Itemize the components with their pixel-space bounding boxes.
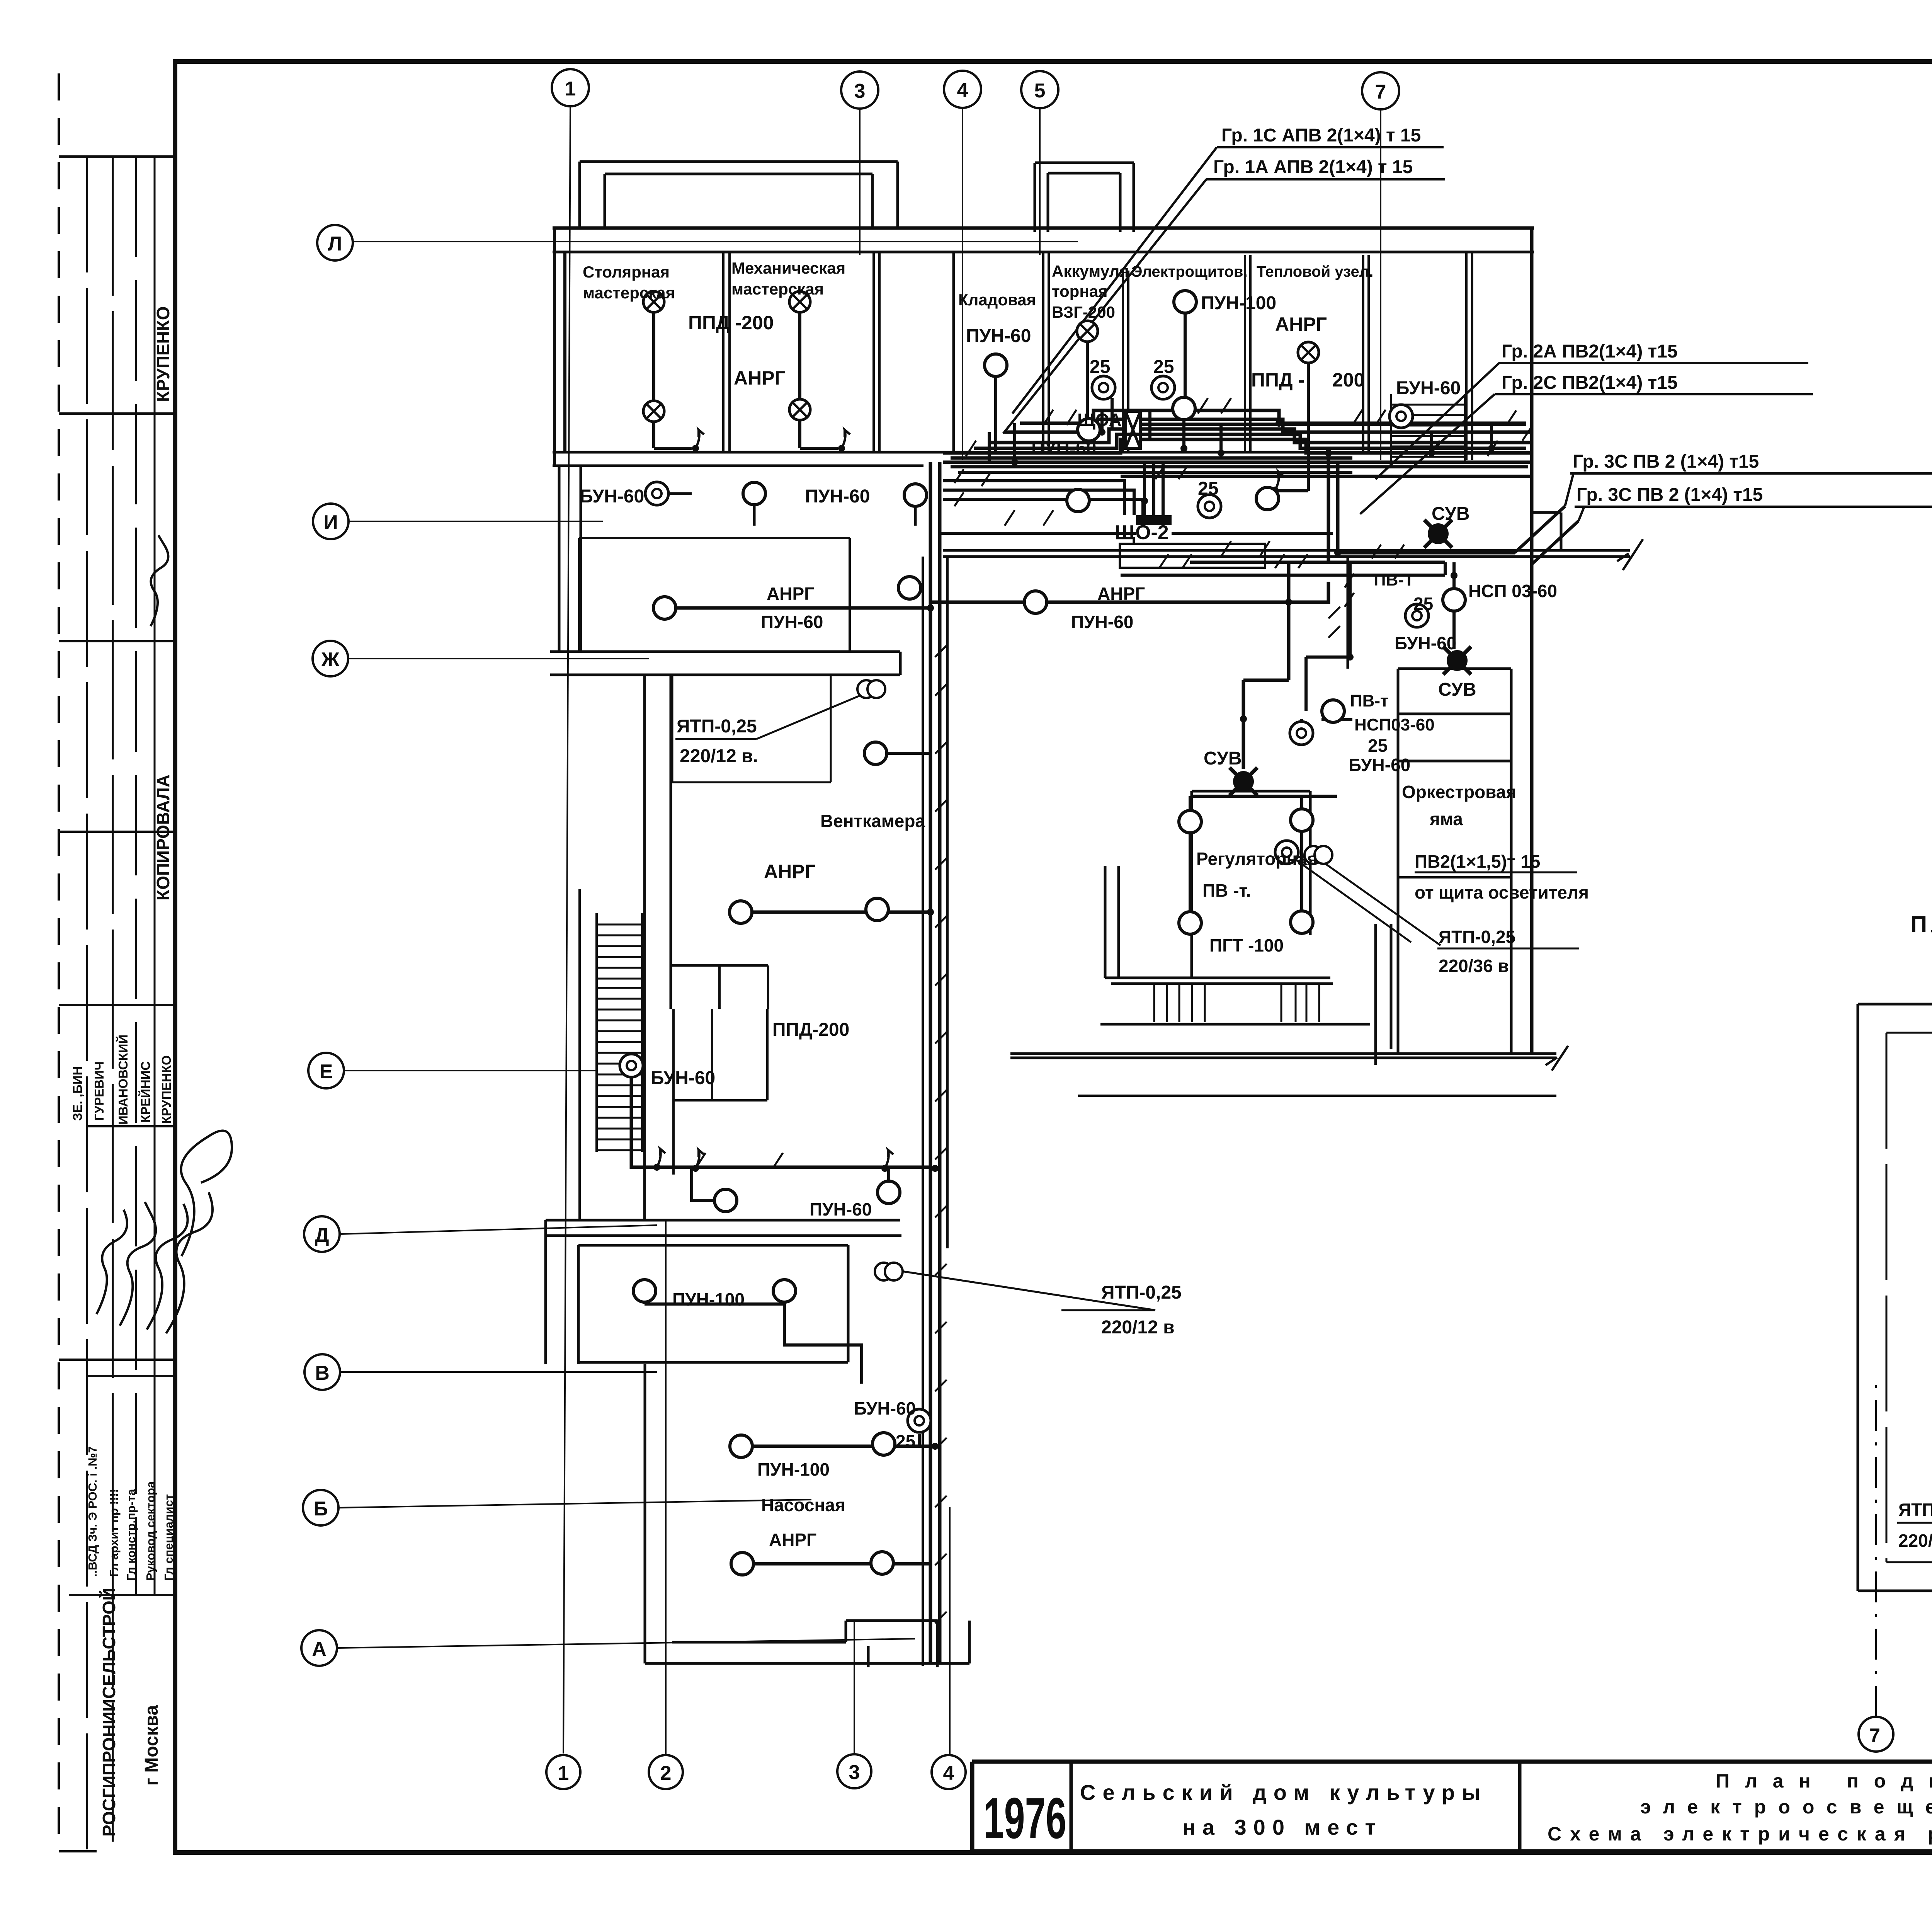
room divider akkum/elektro [1123, 271, 1128, 452]
suv center symbol [1230, 768, 1257, 795]
svg-text:200: 200 [1332, 369, 1364, 391]
lower slab edge [1078, 1095, 1556, 1097]
axis Zh leader [348, 658, 649, 659]
svg-text:ПУН-60: ПУН-60 [1031, 438, 1096, 458]
room divider mech right [874, 252, 879, 452]
stair bun60 double circle [1389, 405, 1413, 428]
stamp column vertical 1 [86, 157, 88, 1851]
drop to ShchO-2 [1145, 462, 1163, 515]
axis V circle [304, 1354, 340, 1390]
mid separation wall elektro area [899, 652, 902, 675]
axis D circle [304, 1216, 340, 1252]
stamp signatures cluster [97, 1130, 232, 1333]
nsp pendant right [1443, 589, 1465, 611]
switch bun60 left mid [653, 1149, 665, 1171]
svg-text:1: 1 [565, 78, 576, 100]
svg-text:Сельский дом культуры: Сельский дом культуры [1080, 1780, 1487, 1805]
svg-text:..ВСД Зч. Э РОС. і .№7: ..ВСД Зч. Э РОС. і .№7 [86, 1446, 99, 1577]
svg-text:ПВ-Т: ПВ-Т [1374, 570, 1414, 589]
pendant kladovaya [985, 354, 1007, 376]
kladovaya stem [994, 376, 997, 452]
regulyatornaya outer wall left [1105, 866, 1333, 984]
svg-text:НСП03-60: НСП03-60 [1354, 715, 1435, 734]
axis 4 top circle [944, 71, 981, 108]
corridor bun60 double circle [645, 482, 668, 505]
wire down center to suv2 [1243, 562, 1289, 769]
svg-text:2: 2 [660, 1762, 672, 1784]
lamp akkum VZG [1077, 321, 1098, 342]
switch mech [838, 430, 850, 452]
top room stems stolyarnaya [654, 312, 692, 448]
svg-text:Оркестровая: Оркестровая [1402, 782, 1516, 802]
yatp underline low [1061, 1309, 1155, 1311]
stamp column vertical 4 [154, 157, 156, 1596]
stair mid-left rails [580, 889, 642, 1221]
svg-text:ГУРЕВИЧ: ГУРЕВИЧ [92, 1061, 106, 1121]
double circle 25 right [1151, 376, 1175, 399]
left outer wall mid [643, 675, 646, 1221]
axis 4 bottom circle [932, 1755, 966, 1789]
gr1 callout diagonals [1003, 147, 1217, 434]
bun60 mid-left double circle [620, 1054, 643, 1077]
svg-text:Гр. 2С ПВ2(1×4) т15: Гр. 2С ПВ2(1×4) т15 [1502, 373, 1678, 393]
switch lower corridor [692, 1150, 704, 1172]
svg-text:220/12 в: 220/12 в [1101, 1317, 1175, 1338]
anrg room wire [741, 911, 930, 914]
dc + transformer for 220/36 [1275, 841, 1298, 864]
svg-text:торная: торная [1052, 282, 1108, 300]
left outer wall top block [554, 228, 565, 466]
svg-text:Гр. 2А ПВ2(1×4) т15: Гр. 2А ПВ2(1×4) т15 [1502, 341, 1678, 362]
axis V leader [340, 1371, 657, 1373]
room divider kladovaya right [1043, 252, 1049, 452]
axis 1 line [563, 106, 570, 1754]
svg-text:Гр. 3С ПВ 2 (1×4) т15: Гр. 3С ПВ 2 (1×4) т15 [1577, 485, 1763, 505]
svg-text:ПУН-60: ПУН-60 [805, 486, 870, 507]
svg-text:220/36 в.: 220/36 в. [1898, 1531, 1932, 1551]
suv wall symbol a [1424, 520, 1452, 548]
yatp 220/36 underline [1437, 948, 1579, 950]
YaTP dashed box [672, 675, 831, 782]
svg-text:АНРГ: АНРГ [769, 1530, 816, 1550]
svg-text:ППД -: ППД - [1251, 369, 1304, 391]
lower corridor double wall left [550, 652, 900, 675]
room divider stolyarnaya/mech [723, 252, 730, 452]
corridor lamp stubs [657, 494, 915, 526]
svg-text:1: 1 [558, 1762, 569, 1784]
svg-text:Руковод сектора: Руковод сектора [144, 1481, 157, 1581]
svg-text:4: 4 [943, 1762, 954, 1784]
wall right of teplo stair shaft [1466, 252, 1472, 460]
axis I circle [313, 504, 349, 539]
axis B leader [338, 1500, 811, 1508]
svg-text:БУН-60: БУН-60 [1396, 378, 1461, 398]
svg-text:КОПИРОВАЛА: КОПИРОВАЛА [153, 775, 173, 901]
ventkamera left wall [670, 675, 672, 1009]
ShchO-2 black bar [1136, 515, 1172, 525]
gallery left room inner [1886, 1033, 1932, 1562]
pendant akkum lower [1078, 419, 1100, 441]
lamp mech top [789, 291, 810, 312]
gallery left room outer [1858, 1004, 1932, 1591]
svg-text:3: 3 [854, 80, 866, 102]
tick marks bundle [696, 398, 1498, 1623]
pendant elektro top [1174, 291, 1196, 313]
top bundle line 1 [1005, 419, 1530, 432]
top inner wall [553, 251, 1534, 254]
svg-text:Ж: Ж [321, 649, 340, 671]
svg-text:РОСГИПРОНИИСЕЛЬСТРОЙ: РОСГИПРОНИИСЕЛЬСТРОЙ [99, 1588, 119, 1837]
extra bundle lines 2 [951, 467, 1530, 476]
svg-text:Гл архит пр !!!!: Гл архит пр !!!! [107, 1489, 121, 1577]
room divider teplo right [1363, 255, 1369, 452]
bundle risers to ShchOA [1102, 398, 1150, 439]
svg-text:АНРГ: АНРГ [767, 584, 814, 604]
svg-text:5: 5 [1034, 80, 1046, 102]
title block outer [972, 1762, 1932, 1851]
yatp transformer top [857, 680, 885, 698]
lamp teplo ANRG [1298, 342, 1319, 363]
axis A leader [337, 1639, 915, 1648]
svg-text:Схема электрическая расположен: Схема электрическая расположения [1548, 1823, 1932, 1845]
axis 1 bottom circle [546, 1755, 580, 1789]
svg-text:ПУН-100: ПУН-100 [672, 1289, 745, 1309]
svg-text:25: 25 [1090, 357, 1110, 377]
stamp column outer dash line [58, 73, 60, 1851]
gallery axis 7 [1859, 1717, 1893, 1752]
switch stolyarnaya [692, 430, 704, 452]
pendant elektro bottom [1173, 397, 1195, 420]
bun double circle center [1290, 722, 1313, 745]
pun100 pendants [633, 1280, 656, 1302]
svg-text:г Москва: г Москва [141, 1705, 162, 1786]
ventkamera right wall pair [923, 557, 947, 1666]
svg-text:СУВ: СУВ [1438, 679, 1476, 700]
svg-text:ПВ-т: ПВ-т [1350, 691, 1389, 710]
nasos pendants row1 [730, 1435, 752, 1457]
bun60 drop lower [918, 1434, 921, 1446]
axis 5 top circle [1021, 71, 1058, 108]
pun60 lower pendants [714, 1189, 737, 1212]
svg-text:Д: Д [315, 1224, 329, 1246]
svg-text:Столярная: Столярная [583, 263, 670, 281]
top bundle line 4 [943, 461, 1530, 464]
ShchO-2 box [1120, 544, 1265, 568]
svg-text:220/36 в.: 220/36 в. [1439, 956, 1514, 976]
svg-text:ПВ2(1×1,5)т 15: ПВ2(1×1,5)т 15 [1415, 851, 1540, 872]
corridor anrg wire left [676, 606, 930, 610]
svg-text:АНРГ: АНРГ [764, 861, 816, 882]
svg-text:ПУН-100: ПУН-100 [757, 1459, 830, 1479]
svg-text:И: И [323, 511, 338, 534]
axis E circle [308, 1053, 344, 1088]
yatp callout leader low [904, 1272, 1155, 1310]
wires into regulyatornaya [1190, 796, 1302, 912]
title block verticals [1071, 1762, 1932, 1851]
pendant near teplo wall [1256, 487, 1279, 510]
corridor pendant anrg right [1024, 591, 1047, 613]
svg-text:Тепловой узел.: Тепловой узел. [1257, 263, 1373, 280]
top-right landing [1532, 512, 1561, 550]
axis 3 bottom circle [837, 1754, 871, 1788]
gr2 callout diagonals [1360, 363, 1499, 514]
svg-text:ЗЕ. ,БИН: ЗЕ. ,БИН [70, 1066, 85, 1121]
axis Zh circle [313, 641, 348, 676]
svg-text:электроосвещение.: электроосвещение. [1640, 1796, 1932, 1818]
svg-text:ПУН-60: ПУН-60 [1071, 612, 1133, 632]
top shaft box right [1035, 163, 1134, 232]
svg-text:ВЗГ-200: ВЗГ-200 [1052, 303, 1115, 321]
lamp mech bottom [789, 399, 810, 420]
svg-text:БУН-60: БУН-60 [854, 1398, 916, 1418]
axis 3 top circle [841, 72, 878, 109]
axis L leader [353, 241, 1078, 242]
corridor double circle 25 [1198, 495, 1221, 518]
nasos wires [741, 1446, 930, 1564]
svg-text:на 300 мест: на 300 мест [1182, 1815, 1383, 1839]
slab break mark [1546, 1046, 1568, 1071]
bun60 lower double circle [908, 1409, 931, 1432]
corridor pendant anrg left [653, 597, 676, 619]
upper-left wall below corridor [559, 466, 581, 652]
suv row horizontal wires [1190, 553, 1515, 562]
corridor wall x3490 [1347, 557, 1349, 669]
svg-text:ЩО-2: ЩО-2 [1115, 521, 1169, 544]
svg-text:7: 7 [1869, 1725, 1880, 1746]
diag leaders to yatp 220/36 [1291, 856, 1440, 945]
axis B circle [303, 1490, 338, 1525]
orchestra mid walls [1398, 876, 1511, 878]
room divider elektro/teplo [1245, 255, 1250, 452]
svg-text:яма: яма [1429, 809, 1463, 829]
svg-text:Электрощитов.: Электрощитов. [1131, 263, 1248, 280]
svg-text:СУВ: СУВ [1432, 504, 1470, 524]
top shaft box left [580, 162, 898, 228]
svg-text:КРЕЙНИС: КРЕЙНИС [138, 1061, 153, 1123]
gr1 underlines [1206, 147, 1445, 179]
svg-text:ПГТ -100: ПГТ -100 [1209, 935, 1284, 955]
svg-text:25: 25 [1198, 478, 1218, 499]
svg-text:ЩОА: ЩОА [1077, 410, 1122, 430]
svg-text:25: 25 [1368, 735, 1388, 756]
extra wire ticks [954, 410, 1532, 607]
room divider kladovaya left [952, 252, 955, 452]
svg-text:1976: 1976 [983, 1786, 1066, 1851]
nasos block left wall [644, 1364, 646, 1663]
double circle 25 left of ShchOA [1092, 376, 1115, 399]
stair mid-left hatch [597, 924, 642, 1150]
stair top-right hatch [1391, 394, 1465, 461]
svg-text:АНРГ: АНРГ [1097, 584, 1145, 604]
pun100 room wires [645, 1279, 862, 1384]
stamp column vertical 3 [135, 157, 137, 1596]
nsp pendant center [1322, 700, 1344, 722]
axis 2 bottom circle [649, 1755, 683, 1789]
lamp stolyarnaya top [643, 291, 664, 312]
svg-text:ЯТП-0,25: ЯТП-0,25 [677, 716, 757, 737]
svg-text:ПУН-100: ПУН-100 [1201, 293, 1276, 313]
corridor pendant 1 [743, 482, 765, 505]
svg-text:Аккумуля: Аккумуля [1052, 262, 1129, 280]
ventkamera bottom small rooms [671, 965, 768, 1009]
yatp transformer lower [875, 1263, 903, 1280]
svg-text:План осветительной галереи: План осветительной галереи [1910, 911, 1932, 937]
risers top rooms bundle [1184, 410, 1492, 453]
nasos bottom walls [645, 1621, 969, 1667]
extra riser kladovaya [989, 423, 1015, 462]
svg-text:ИВАНОВСКИЙ: ИВАНОВСКИЙ [116, 1035, 130, 1125]
svg-text:План подвала: План подвала [1716, 1770, 1932, 1792]
axis 1 top circle [552, 69, 589, 106]
corridor double wire suv row [1121, 562, 1445, 575]
svg-text:Механическая: Механическая [731, 259, 845, 277]
svg-text:ПВ -т.: ПВ -т. [1202, 880, 1251, 901]
balusters below regulyatornaya [1154, 984, 1319, 1022]
svg-text:Б: Б [313, 1498, 328, 1520]
svg-text:мастерская: мастерская [731, 280, 824, 298]
wires exit right top [1515, 506, 1578, 564]
extra bundle lines 3 [951, 424, 1526, 458]
wire along corridor y1380 [940, 532, 1333, 535]
svg-text:Гр. 3С ПВ 2 (1×4) т15: Гр. 3С ПВ 2 (1×4) т15 [1573, 451, 1759, 472]
axis 3 line top [859, 109, 861, 255]
svg-text:БУН-60: БУН-60 [1395, 633, 1456, 653]
axis 4 line top [962, 108, 963, 460]
landing line below balusters [1100, 1023, 1370, 1026]
lamp stolyarnaya bottom [643, 401, 664, 422]
bottom slab lines [1010, 1054, 1556, 1058]
top room stems mech [800, 312, 838, 448]
extra bundle lines [974, 410, 1526, 448]
right outer wall top [1530, 228, 1534, 1054]
axis D leader [340, 1225, 657, 1234]
upper-left inner room rect [579, 538, 850, 653]
svg-text:4: 4 [957, 79, 968, 102]
pv2 underline orchestral [1415, 872, 1577, 873]
wall end break mark [1617, 539, 1643, 570]
svg-text:В: В [315, 1362, 330, 1384]
axis 3 bottom line [854, 1619, 855, 1754]
main vertical trunk wire pair [930, 462, 940, 1662]
svg-text:7: 7 [1375, 81, 1386, 103]
svg-text:Гр. 1С АПВ 2(1×4) т 15: Гр. 1С АПВ 2(1×4) т 15 [1221, 125, 1421, 146]
svg-text:от щита осветителя: от щита осветителя [1415, 882, 1589, 902]
orchestra pit walls [1398, 669, 1511, 1054]
svg-text:Насосная: Насосная [761, 1495, 845, 1515]
corridor wires to ShchO2 [943, 481, 1143, 515]
pun100 room [578, 1245, 848, 1362]
ventkamera wire mid [887, 752, 930, 755]
axis A circle [301, 1630, 337, 1666]
svg-text:НСП 03-60: НСП 03-60 [1468, 581, 1557, 601]
svg-text:ПУН-60: ПУН-60 [966, 326, 1031, 346]
pv-t loop wires [1306, 562, 1454, 711]
top outer wall [553, 226, 1534, 230]
svg-text:ППД -200: ППД -200 [688, 312, 774, 334]
top bundle line 3 [943, 439, 1530, 453]
left wall lower [546, 1220, 578, 1364]
bun60 stub wires center [1301, 616, 1429, 746]
corridor anrg wire right [930, 582, 1328, 602]
svg-text:БУН-60: БУН-60 [580, 486, 644, 507]
svg-text:25: 25 [1413, 594, 1433, 614]
axis 4 bottom line [949, 1507, 951, 1755]
corridor bottom wall right part [943, 550, 1630, 557]
svg-text:Венткамера: Венткамера [820, 811, 925, 831]
svg-text:АНРГ: АНРГ [734, 367, 786, 389]
svg-text:КРУПЕНКО: КРУПЕНКО [159, 1055, 173, 1124]
axis 5 line top [1039, 108, 1041, 255]
pendant next trunk [898, 577, 921, 599]
gr2 underlines [1495, 363, 1813, 394]
stamp column vertical 2 [112, 157, 114, 1851]
corridor pendant 2 [904, 484, 927, 506]
regulyatornaya room [1192, 791, 1310, 978]
svg-text:Гр. 1А АПВ 2(1×4) т 15: Гр. 1А АПВ 2(1×4) т 15 [1213, 157, 1413, 177]
axis 7 line [1380, 109, 1381, 460]
top bundle line 2 [989, 429, 1530, 443]
teplo stem [1275, 363, 1308, 491]
anrg room pendants [730, 901, 752, 923]
svg-text:220/12 в.: 220/12 в. [680, 746, 758, 766]
akkum stem [1086, 342, 1089, 444]
svg-text:АНРГ: АНРГ [1275, 313, 1327, 335]
bun60 wire left mid [631, 1077, 930, 1167]
gr3 callout leaders [1565, 473, 1584, 521]
svg-text:СУВ: СУВ [1204, 748, 1242, 769]
duct right of regulyatornaya [1376, 924, 1391, 1065]
ventkamera pendant mid [864, 742, 887, 764]
stamp signature squiggle [151, 535, 168, 626]
bun60 double circle right [1405, 604, 1429, 627]
nasos pendants row2 [731, 1553, 753, 1575]
svg-text:Гл констр.пр-та: Гл констр.пр-та [124, 1489, 138, 1581]
regulyatornaya pendants [1179, 810, 1201, 833]
svg-text:ЯТП-0,25: ЯТП-0,25 [1898, 1500, 1932, 1520]
ShchOA cross [1126, 411, 1140, 448]
room row bottom walls [553, 452, 1530, 466]
svg-text:Регуляторная: Регуляторная [1196, 849, 1318, 869]
pun60 lamps wire lower [692, 1168, 889, 1200]
elektro stems [1184, 313, 1185, 452]
svg-text:КРУПЕНКО: КРУПЕНКО [153, 306, 173, 402]
svg-text:БУН-60: БУН-60 [1349, 755, 1410, 775]
svg-text:ПУН-60: ПУН-60 [761, 612, 823, 632]
corridor pendant 3 [1067, 489, 1089, 512]
axis 2 line [665, 1221, 667, 1755]
svg-text:БУН-60: БУН-60 [651, 1068, 715, 1088]
bundle down to suv row [1328, 453, 1338, 562]
ShchOA panel box [1126, 411, 1140, 448]
svg-text:25: 25 [896, 1431, 915, 1451]
ppd200 room inner walls [673, 1009, 767, 1175]
svg-text:25: 25 [1153, 357, 1174, 377]
svg-text:3: 3 [849, 1761, 860, 1784]
junction dots [927, 420, 1495, 1450]
corridor bottom double wall [546, 1220, 901, 1236]
axis 7 top circle [1362, 72, 1399, 109]
suv top symbol [1443, 647, 1471, 674]
svg-text:Е: Е [320, 1061, 333, 1083]
svg-text:мастерская: мастерская [583, 284, 675, 302]
svg-text:ЯТП-0,25: ЯТП-0,25 [1439, 927, 1515, 947]
svg-text:А: А [312, 1638, 327, 1660]
stamp divider rows [59, 157, 175, 1851]
regulyatornaya top wire [1192, 795, 1337, 798]
svg-text:Гл специалист: Гл специалист [162, 1494, 175, 1581]
svg-text:ППД-200: ППД-200 [772, 1020, 849, 1040]
svg-text:ПУН-60: ПУН-60 [810, 1199, 872, 1219]
